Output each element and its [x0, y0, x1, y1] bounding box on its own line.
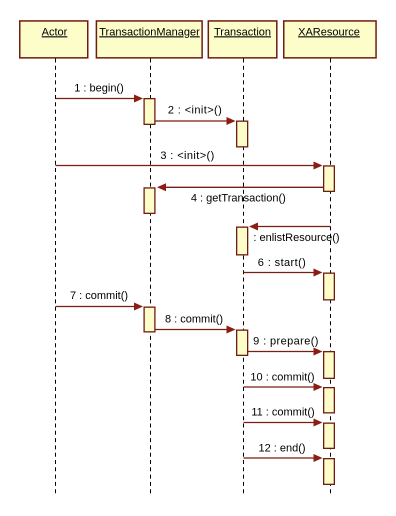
- message 2 <init>(): [156, 105, 236, 126]
- svg-text:2 : <init>(): 2 : <init>(): [168, 105, 222, 117]
- lifeline XAResource: [330, 59, 332, 496]
- message 1 begin(): [56, 83, 144, 103]
- message 11 commit(): [244, 407, 323, 427]
- svg-text:10 : commit(): 10 : commit(): [250, 371, 314, 383]
- message 12 end(): [244, 443, 323, 463]
- lifeline Transaction: [243, 59, 245, 496]
- message 5 enlistResource() (left): [249, 223, 340, 245]
- message 9 prepare(): [248, 336, 323, 356]
- svg-text:4 : getTransaction(): 4 : getTransaction(): [191, 193, 286, 205]
- message 6 start(): [244, 257, 323, 277]
- object box TransactionManager: [96, 21, 202, 58]
- message 4 getTransaction() (return left): [157, 183, 324, 204]
- svg-text:12 : end(): 12 : end(): [258, 443, 305, 455]
- svg-text:7 : commit(): 7 : commit(): [70, 290, 128, 302]
- svg-text:Actor: Actor: [42, 26, 68, 38]
- message 3 <init>(): [56, 150, 323, 170]
- activation XAResource 3: [324, 352, 335, 379]
- activation XAResource 6: [324, 459, 335, 485]
- activation Transaction 1: [237, 121, 248, 147]
- svg-text:3 : <init>(): 3 : <init>(): [160, 150, 214, 162]
- object box Actor: [20, 21, 88, 58]
- activation TransactionManager 1: [144, 99, 155, 125]
- activation Transaction 3: [237, 330, 248, 355]
- message 7 commit(): [56, 290, 144, 311]
- svg-text:TransactionManager: TransactionManager: [99, 26, 200, 38]
- svg-text:: enlistResource(): : enlistResource(): [253, 232, 339, 244]
- svg-text:9 : prepare(): 9 : prepare(): [253, 336, 319, 348]
- object box XAResource: [284, 21, 376, 58]
- message 8 commit(): [156, 314, 236, 334]
- activation XAResource 5: [324, 423, 335, 448]
- svg-text:6 : start(): 6 : start(): [258, 257, 306, 269]
- lifeline TransactionManager: [150, 59, 152, 496]
- lifeline Actor: [55, 59, 57, 496]
- activation XAResource 4: [324, 388, 335, 413]
- activation Transaction 2: [237, 227, 248, 255]
- svg-text:XAResource: XAResource: [298, 26, 360, 38]
- object box Transaction: [208, 21, 276, 58]
- svg-text:11 : commit(): 11 : commit(): [251, 407, 314, 419]
- activation XAResource 1: [324, 166, 335, 191]
- svg-text:8 : commit(): 8 : commit(): [165, 314, 223, 326]
- svg-text:1 : begin(): 1 : begin(): [74, 83, 124, 95]
- message 10 commit(): [244, 371, 323, 391]
- activation TransactionManager 3: [144, 307, 155, 332]
- svg-text:Transaction: Transaction: [214, 26, 271, 38]
- activation TransactionManager 2: [144, 188, 155, 213]
- activation XAResource 2: [324, 273, 335, 300]
